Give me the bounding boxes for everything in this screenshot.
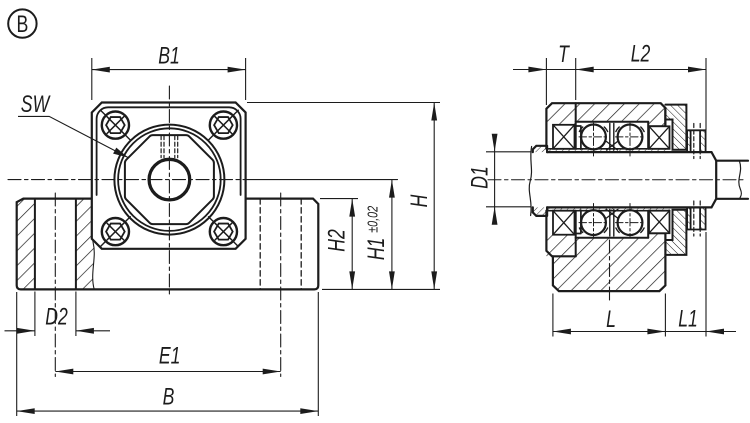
hatch adapter sleeve strip top (547, 149, 669, 152)
screw M2 top-right (209, 110, 239, 140)
housing flange back face top (575, 103, 577, 149)
dimension D2 (5, 292, 111, 337)
svg-text:B: B (163, 383, 175, 411)
break line wavy (92, 199, 94, 290)
right mounting hole hidden edges (260, 199, 301, 290)
seal square top-right (649, 126, 670, 149)
housing seat shoulder right bottom (648, 211, 665, 238)
view label circle B (8, 9, 36, 37)
seal square top-left (553, 125, 575, 149)
centerline right hole (280, 193, 282, 377)
base block outline (553, 233, 666, 291)
svg-text:D1: D1 (466, 166, 494, 189)
race shoulder lines between balls (610, 124, 614, 237)
svg-text:L2: L2 (631, 40, 651, 68)
shaft break line left (529, 147, 531, 216)
dimension D1 (466, 134, 531, 225)
base plate outline (17, 199, 319, 290)
dimension B1 (92, 42, 246, 100)
flange square outer (92, 103, 246, 249)
svg-text:E1: E1 (159, 342, 181, 370)
shaft outline (547, 152, 748, 207)
hatch left section band of base plate (17, 199, 35, 290)
inner ring top line (549, 148, 670, 150)
centerline base block vertical (609, 240, 611, 302)
housing flange back face bottom (575, 211, 577, 257)
flange square inner chamfer line (97, 107, 241, 195)
centerline horizontal front (8, 179, 245, 181)
bearing ball top-left (581, 124, 606, 149)
hatch locking collar bottom (687, 207, 691, 229)
hatch housing bottom and base block (546, 233, 665, 291)
mounting hole bore edges (sectioned) (34, 199, 36, 290)
svg-text:B: B (16, 11, 28, 37)
svg-text:SW: SW (21, 90, 51, 118)
bearing outer ring left face top (575, 126, 581, 149)
dimension T and L2 (513, 40, 706, 130)
race grooves bottom (579, 228, 644, 233)
dimension E1 (55, 342, 280, 375)
dimension L and L1 (553, 232, 736, 337)
svg-text:B1: B1 (158, 42, 180, 70)
centerline shaft axis (488, 179, 745, 181)
screw M4 bottom-right (209, 217, 239, 247)
housing bearing bore bottom (576, 237, 649, 239)
locating washer left (533, 146, 547, 216)
screw M1 top-left (101, 110, 131, 140)
shaft break line right (739, 161, 742, 199)
dimension B (17, 292, 319, 416)
housing right face top (664, 108, 666, 126)
locking collar outline bottom (687, 207, 706, 229)
bearing ball bottom-right (618, 210, 643, 235)
seal square bottom-right (649, 211, 670, 234)
end cover outline bottom (665, 210, 686, 255)
dimension H2 (320, 199, 440, 290)
bearing housing inner circle (118, 128, 221, 231)
hatch housing top (546, 103, 665, 126)
hatch locating washer left bottom (533, 207, 547, 216)
housing outline top (546, 103, 665, 149)
svg-text:D2: D2 (45, 303, 68, 331)
seal square bottom-left (553, 211, 575, 235)
hatch locking collar top (687, 130, 691, 152)
shaft bore circle (149, 159, 190, 200)
bearing outer ring left face bottom (575, 210, 581, 233)
bearing ball top-right (618, 124, 643, 149)
screw M3 bottom-left (101, 217, 131, 247)
svg-text:L: L (606, 305, 616, 333)
inner ring bottom line (549, 210, 670, 212)
grub screw hidden lines bottom (694, 201, 700, 236)
svg-text:H: H (405, 194, 433, 207)
locking collar outline top (687, 130, 706, 152)
hatch end cover top (665, 105, 686, 150)
bearing housing outer circle (114, 125, 224, 235)
hatch end cover bottom (665, 210, 686, 255)
race grooves top (579, 127, 644, 132)
cage cross between balls bottom (607, 210, 618, 219)
svg-text:T: T (558, 40, 570, 68)
end cover outline top (665, 105, 686, 150)
housing seat shoulder right top (648, 122, 665, 149)
hatch adapter sleeve strip bottom (547, 207, 669, 210)
bearing ball bottom-left (581, 210, 606, 235)
locking collar octagon SW flats (125, 135, 214, 224)
hatch locating washer left top (533, 146, 547, 152)
centerline left hole (54, 193, 56, 377)
ball centerline ticks (579, 123, 645, 237)
hidden grub screw thread lines (161, 136, 178, 158)
grub screw hidden lines top (694, 124, 700, 159)
housing outline bottom left (546, 211, 575, 257)
cage cross between balls top (607, 142, 618, 151)
svg-text:L1: L1 (678, 305, 698, 333)
hatch right section band of base plate (76, 199, 94, 290)
dimension H (247, 103, 440, 290)
housing bearing bore top (576, 121, 649, 123)
centerline vertical front (168, 86, 170, 297)
label SW with leader (18, 90, 128, 157)
svg-text:H2: H2 (323, 229, 351, 252)
dimension H1 +-0,02 (362, 180, 395, 290)
